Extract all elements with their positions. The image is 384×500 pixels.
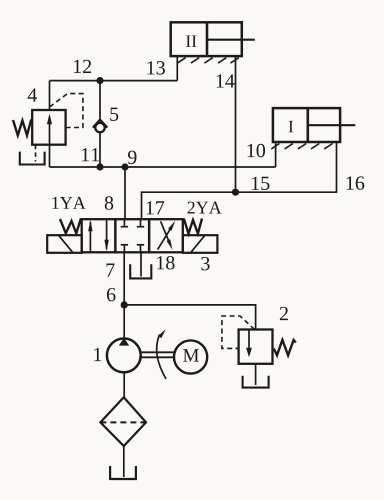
cylinder II rod [207,39,255,41]
label 6 [107,288,116,301]
relief valve 2 tank [243,376,269,388]
cylinder I piston [306,108,309,142]
wire port 17 up and line 15 [142,142,337,219]
wire check valve 5 to node 11 [99,133,101,168]
relief valve 4 pilot dashed line [50,94,83,128]
relief valve 4 spring [13,119,31,135]
label 4 [28,88,37,101]
solenoid 2YA diagonal [191,235,206,253]
label 12 [74,60,91,73]
suction tank [110,466,136,479]
check valve 5 ball [95,123,104,132]
label 11 [82,148,99,161]
label 8 [105,196,113,210]
node 11 junction dot [96,163,103,170]
label 14 [217,74,235,87]
relief valve 2 spring [274,340,296,356]
valve 3 right box crossed arrow down [161,221,173,250]
relief valve 2 outlet line [255,364,257,385]
valve 3 left box up arrow [88,220,92,252]
label 13 [147,61,164,74]
cylinder I mounting hatches [271,144,332,149]
label 2YA [187,202,221,214]
label 9 [128,151,137,164]
node 12 junction dot [96,77,103,84]
motor circle [174,340,207,373]
directional valve 3 right box [149,219,183,252]
wire 11-9-10 horizontal [50,166,276,168]
node 9 junction dot [121,163,128,170]
label 5 [110,108,118,121]
valve 3 tank port 18 symbol [130,264,151,278]
label 1YA [52,197,85,209]
label II [186,35,196,46]
drive shaft [141,352,174,357]
wire filter to tank [123,446,125,477]
relief valve 4 tank [20,152,45,165]
directional valve 3 left box [82,219,116,252]
label 18 [157,256,174,269]
rotation direction arc [157,329,166,379]
relief valve 4 arrow [47,114,52,145]
label 7 [107,264,115,277]
filter diamond [100,397,146,446]
cylinder II piston [206,22,209,56]
label 15 [252,177,269,190]
wire valve 4 outlet down [49,145,51,167]
wire pump to filter [123,372,125,397]
wire 14 vertical [235,56,237,192]
relief valve 2 pilot dashed [222,316,255,348]
cylinder II body [171,22,242,56]
valve 3 right box crossed arrow up [158,221,176,250]
label 17 [147,201,165,214]
valve 3 tank port 18 line [140,252,142,276]
wire node 6 to valve 2 [124,305,255,330]
cylinder I rod [308,124,356,126]
relief valve 4 drain dashed [35,145,37,162]
left spring of valve 3 [60,219,81,234]
label I [289,121,294,132]
label 1 [94,348,101,361]
cylinder II mounting hatches [177,58,239,63]
label 2 [280,307,288,320]
solenoid 2YA box [183,235,218,253]
node 15 junction dot [232,189,239,196]
wire 12-13 horizontal [50,80,178,82]
valve 3 left box down arrow [104,220,108,252]
pump 1 circle [107,339,141,373]
label 3 [201,257,209,270]
wire port 7 to node 6 [123,252,125,305]
wire port 8 vertical [124,167,126,219]
pump 1 triangle [119,338,129,346]
node 6 junction dot [121,301,128,308]
check valve 5 seat [93,120,108,128]
relief valve 2 body [239,330,273,364]
valve 3 middle box blocked ports [121,219,145,252]
wire 13 vertical to cylinder II [176,56,178,81]
wire node 6 to pump [123,305,125,339]
cylinder I body [273,108,340,142]
right spring of valve 3 [184,219,202,234]
label M [183,349,199,361]
wire 10 vertical to cylinder I [275,142,277,167]
directional valve 3 middle box [115,219,149,252]
wire node 12 down to check valve 5 [99,81,101,121]
solenoid 1YA box [47,235,81,253]
filter element dashed [100,421,146,423]
label 16 [347,176,365,189]
relief valve 2 arrow [246,330,252,357]
wire from node 12 down to valve 4 [49,81,51,110]
relief valve 4 body [32,110,65,145]
label 10 [248,144,265,158]
solenoid 1YA diagonal [59,235,74,253]
